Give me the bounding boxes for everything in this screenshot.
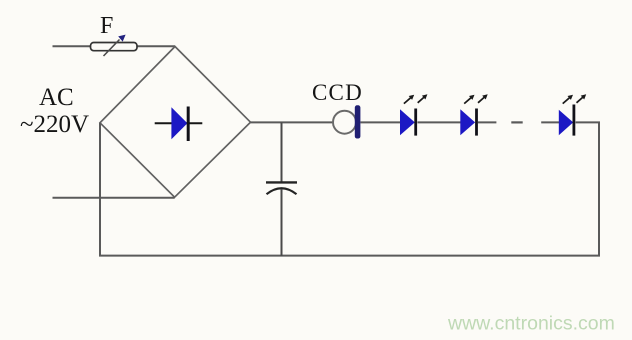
LED D3 triangle [559,110,573,135]
wire: capacitor top lead [281,122,283,182]
CCD sensor circle [333,111,356,134]
LED D3 emission arrows [563,97,570,103]
LED D1 triangle [400,109,415,135]
wire: AC live input to fuse and bridge top node [53,45,176,47]
bridge diode triangle [171,107,187,139]
wire: CCD output to LED1 [361,121,401,123]
wire: capacitor bottom lead [281,190,283,257]
fuse F diagonal stroke [104,40,120,57]
capacitor C bottom curved plate [267,188,297,194]
fuse F arrowhead [118,35,125,42]
LED D1 cathode bar [414,109,417,136]
wire: LED3 to right rail [576,121,600,123]
wire: LED2 output segment [478,121,496,123]
fuse F body [91,43,138,51]
wire: right side vertical return [598,122,600,256]
wire: bridge left vertex down to bottom rail [99,123,101,257]
capacitor C top plate [266,181,297,183]
wire: continuation dash [511,121,522,123]
wire: segment into LED3 [541,121,559,123]
wire: AC neutral input to bridge bottom vertex [53,197,175,199]
LED D1 emission arrows [404,97,411,103]
svg-text:F: F [100,13,113,39]
CCD sensor bar [355,105,361,138]
LED D2 cathode bar [475,109,478,136]
svg-text:CCD: CCD [312,80,363,105]
svg-text:AC: AC [39,84,74,111]
bridge diode lead line [155,122,203,124]
wire: bridge positive output to CCD [251,121,334,123]
wire: bottom return rail [99,255,600,257]
wire: LED1 to LED2 [418,121,461,123]
bridge rectifier diamond body [100,47,251,198]
svg-text:~220V: ~220V [20,111,89,138]
LED D3 cathode bar [573,105,576,136]
bridge diode cathode bar [187,107,190,142]
LED D2 triangle [460,109,475,135]
LED D2 emission arrows [464,97,471,103]
svg-text:www.cntronics.com: www.cntronics.com [447,313,615,335]
